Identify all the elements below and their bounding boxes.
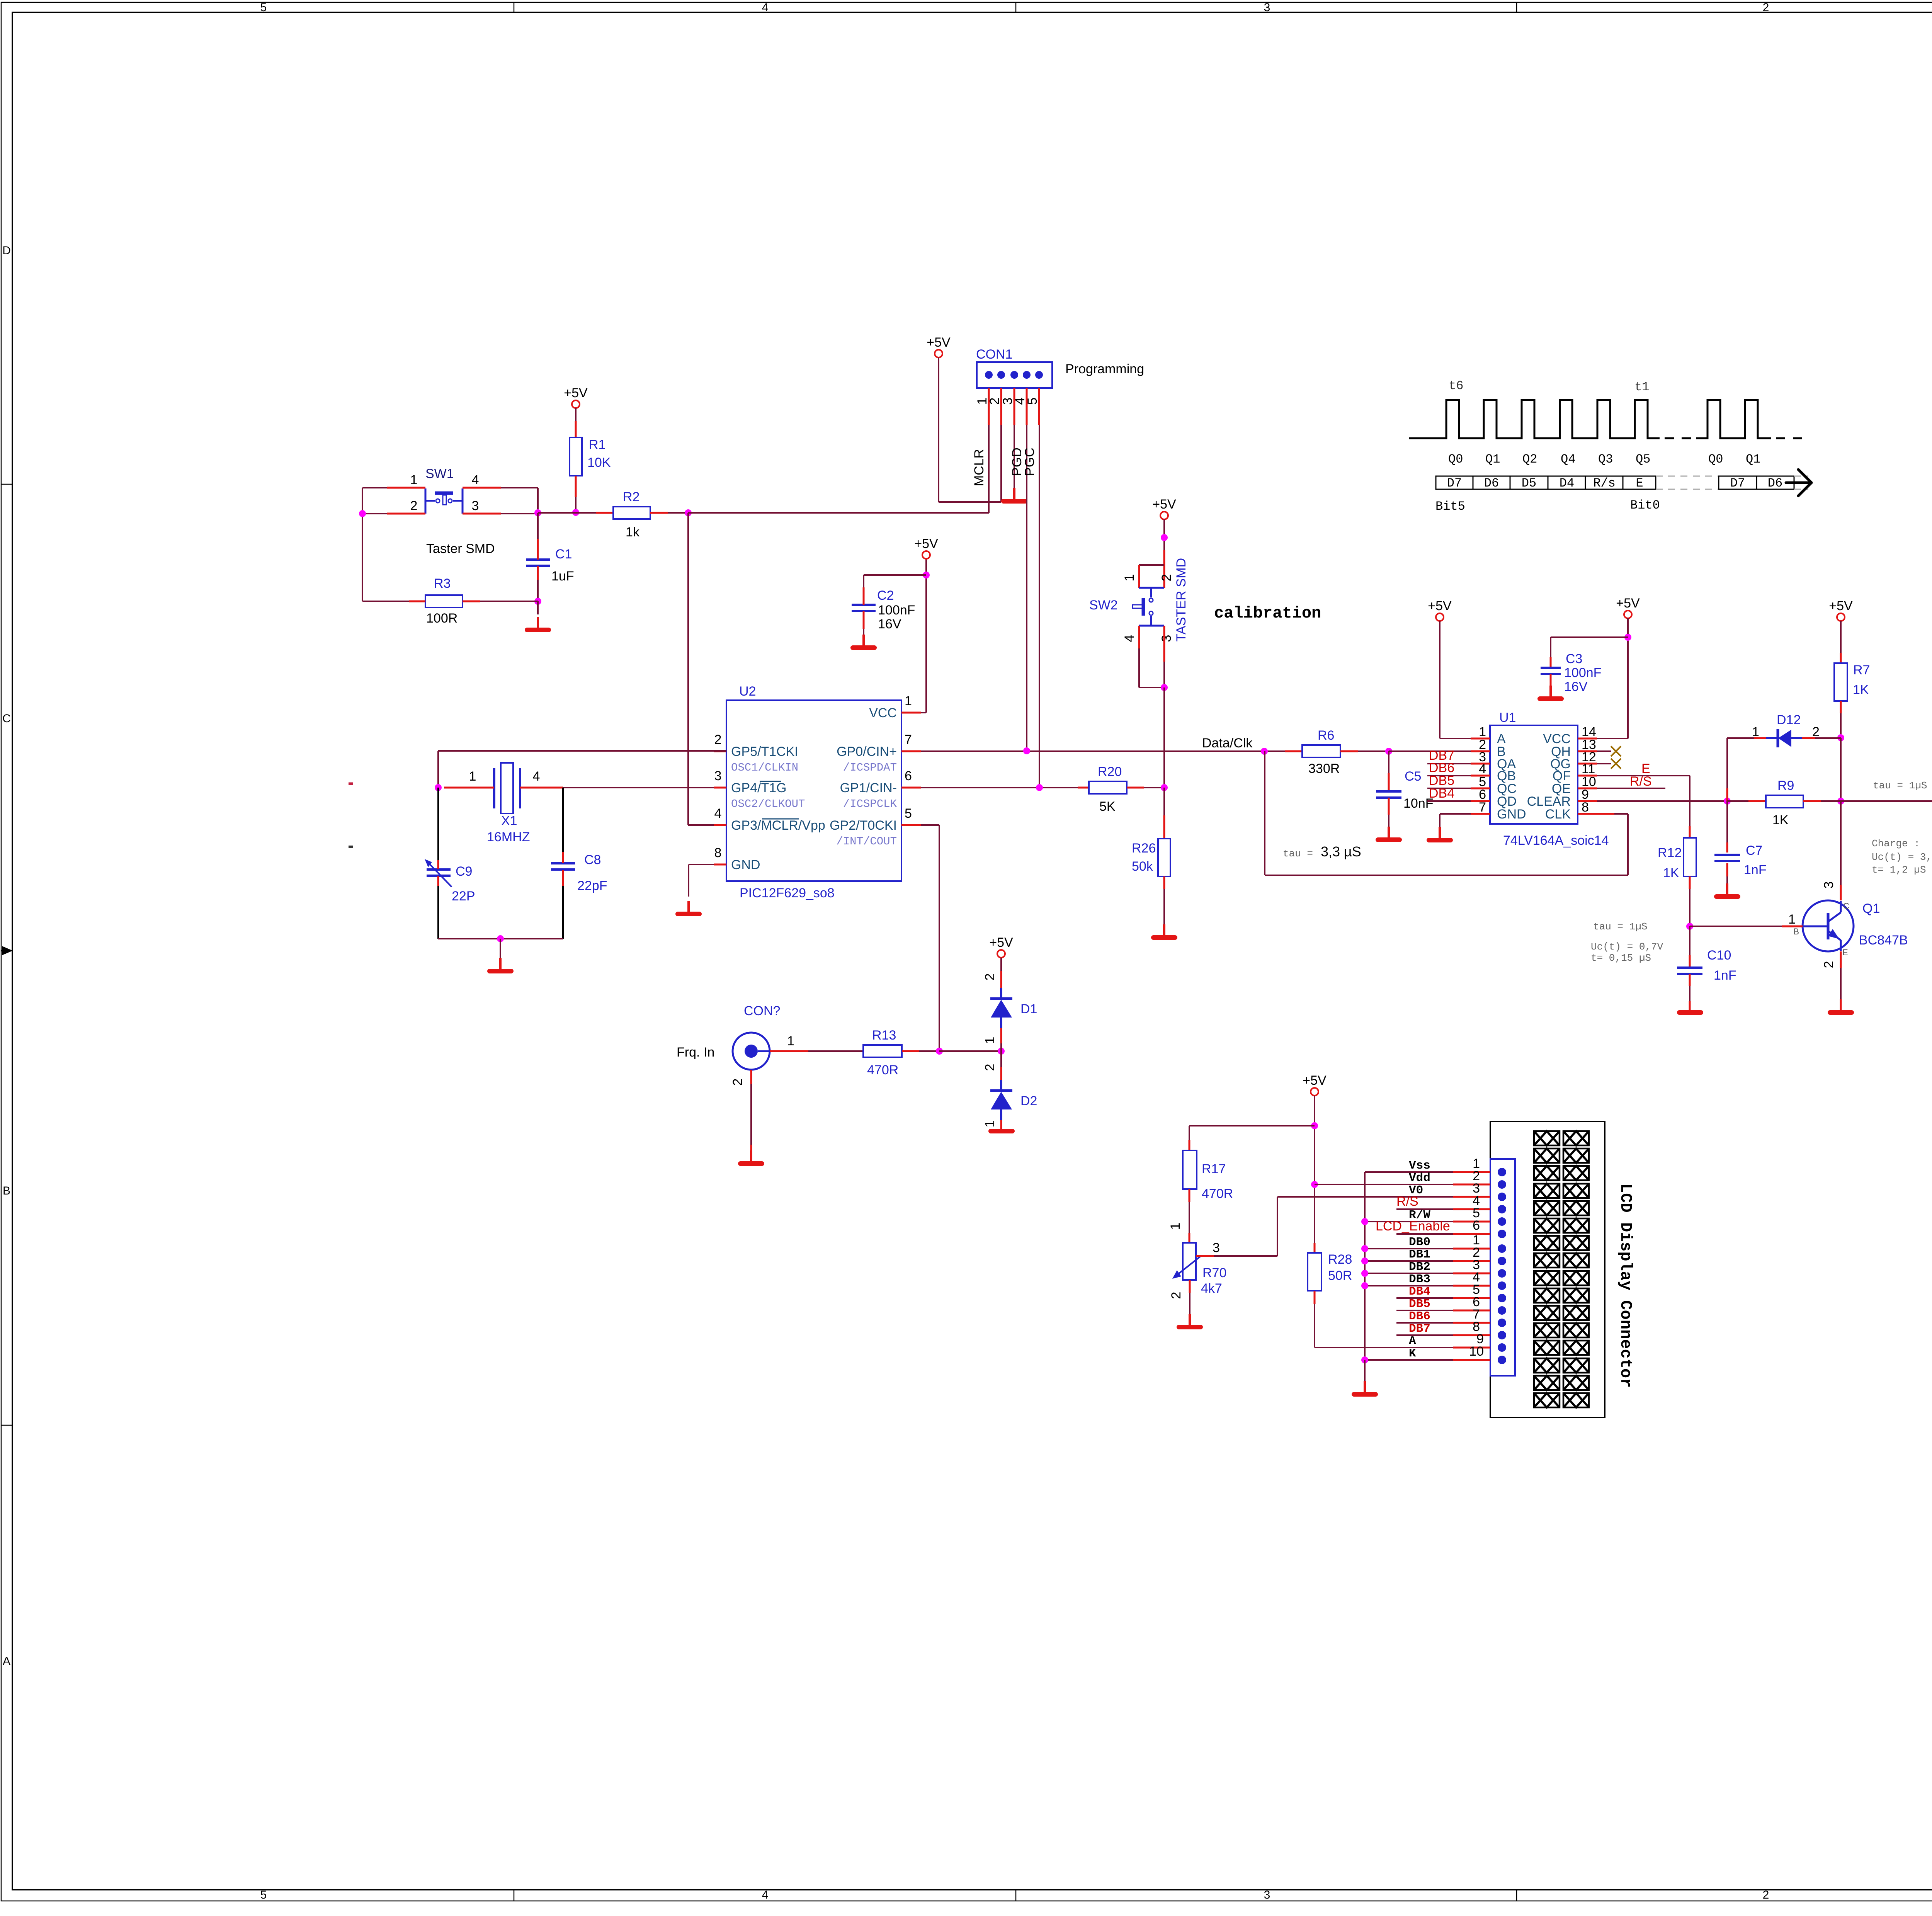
svg-text:5: 5 bbox=[1025, 398, 1040, 405]
svg-text:t= 0,15 µS: t= 0,15 µS bbox=[1591, 952, 1651, 964]
capacitor C3 bbox=[1551, 636, 1628, 638]
wire C9 bottom bbox=[437, 876, 439, 886]
svg-text:R2: R2 bbox=[623, 490, 639, 504]
svg-text:DB5: DB5 bbox=[1409, 1297, 1430, 1311]
wire SW2 pin1 bbox=[1139, 564, 1164, 566]
power +5V (U2) bbox=[914, 536, 938, 559]
svg-text:DB7: DB7 bbox=[1409, 1322, 1430, 1336]
svg-text:2: 2 bbox=[1159, 574, 1174, 582]
svg-text:GND: GND bbox=[1497, 807, 1526, 822]
svg-text:A: A bbox=[3, 1655, 10, 1668]
wire DB4 bbox=[1427, 800, 1471, 802]
resistor R12 bbox=[1684, 838, 1696, 876]
junction C3 tap bbox=[1624, 634, 1631, 641]
wire R13 to nodes bbox=[919, 1050, 939, 1052]
junction Vdd tap bbox=[1311, 1181, 1318, 1188]
svg-text:R20: R20 bbox=[1098, 764, 1122, 779]
power +5V (U1 A) bbox=[1428, 599, 1452, 621]
svg-text:10K: 10K bbox=[587, 455, 611, 470]
wire DB5 pin6 bbox=[1396, 1310, 1453, 1311]
svg-text:OSC1/CLKIN: OSC1/CLKIN bbox=[731, 761, 798, 774]
junction D12/R7 bbox=[1837, 734, 1844, 741]
wire main node to R2 bbox=[538, 512, 596, 514]
wire R/W bbox=[1365, 1221, 1453, 1222]
wire osc top bbox=[438, 750, 726, 752]
wire osc bottom bbox=[438, 938, 563, 939]
ground D2 bbox=[991, 1129, 1012, 1133]
wire R12 bottom bbox=[1689, 876, 1691, 889]
svg-text:Charge :: Charge : bbox=[1872, 838, 1920, 849]
wire D12 pin1 bbox=[1754, 737, 1766, 739]
wire MCLR node to CON1 bbox=[688, 512, 989, 514]
svg-text:C7: C7 bbox=[1746, 843, 1762, 858]
wire CON1 pin4 PGD bbox=[1026, 425, 1027, 750]
svg-text:1: 1 bbox=[787, 1034, 794, 1048]
stray mark red bbox=[349, 783, 353, 785]
svg-text:5: 5 bbox=[260, 1889, 267, 1901]
svg-text:DB3: DB3 bbox=[1409, 1273, 1430, 1286]
wire +5V LCD down bbox=[1314, 1096, 1315, 1243]
svg-text:3: 3 bbox=[714, 769, 722, 783]
svg-text:PIC12F629_so8: PIC12F629_so8 bbox=[740, 886, 835, 900]
svg-text:100nF: 100nF bbox=[878, 603, 915, 618]
resistor R6 bbox=[1285, 750, 1302, 752]
svg-text:+5V: +5V bbox=[1616, 596, 1640, 611]
zone ticks left bbox=[1, 484, 12, 485]
svg-text:3: 3 bbox=[1213, 1240, 1220, 1255]
wire CON1 pin3 to gnd bbox=[1014, 425, 1015, 488]
svg-text:Uc(t) = 3,5V: Uc(t) = 3,5V bbox=[1872, 851, 1932, 863]
svg-text:D5: D5 bbox=[1522, 476, 1536, 490]
svg-text:VCC: VCC bbox=[869, 706, 897, 720]
power +5V (R7) bbox=[1829, 599, 1853, 621]
power +5V (D1) bbox=[989, 935, 1013, 958]
junction C1/R3 bbox=[534, 598, 541, 605]
svg-text:4: 4 bbox=[762, 1889, 769, 1901]
svg-text:Frq. In: Frq. In bbox=[677, 1045, 714, 1060]
junction X1 pin1 bbox=[435, 784, 442, 791]
svg-text:+5V: +5V bbox=[1428, 599, 1452, 613]
svg-text:LCD Display Connector: LCD Display Connector bbox=[1616, 1183, 1635, 1388]
svg-text:2: 2 bbox=[987, 398, 1002, 405]
wire C5 node to U1 B bbox=[1389, 750, 1471, 752]
svg-text:3: 3 bbox=[472, 499, 479, 513]
junction SW2 top bbox=[1161, 534, 1168, 541]
svg-text:470R: 470R bbox=[1202, 1186, 1233, 1201]
svg-text:1: 1 bbox=[983, 1120, 997, 1128]
power +5V (U1 VCC) bbox=[1616, 596, 1640, 618]
svg-text:1: 1 bbox=[1788, 912, 1796, 927]
junction DB2 rail bbox=[1361, 1270, 1368, 1277]
svg-text:1nF: 1nF bbox=[1744, 863, 1767, 877]
svg-text:3,3 µS: 3,3 µS bbox=[1321, 844, 1361, 859]
svg-text:D7: D7 bbox=[1447, 476, 1462, 490]
wire Q1 collector bbox=[1840, 801, 1842, 885]
svg-text:GP5/T1CKI: GP5/T1CKI bbox=[731, 744, 798, 759]
svg-text:LCD_Enable: LCD_Enable bbox=[1376, 1219, 1450, 1234]
svg-text:2: 2 bbox=[983, 973, 997, 981]
junction SW2 bottom bbox=[1161, 684, 1168, 691]
svg-text:C: C bbox=[2, 712, 11, 725]
zone ticks bottom bbox=[514, 1890, 515, 1901]
wire R7 node down bbox=[1840, 738, 1842, 801]
wire U1 GND bbox=[1440, 813, 1471, 815]
svg-text:CON?: CON? bbox=[744, 1004, 780, 1018]
wire Q1 base bbox=[1690, 926, 1782, 927]
resistor R20 bbox=[1078, 787, 1089, 789]
wire DB5 bbox=[1427, 788, 1471, 789]
svg-text:CON1: CON1 bbox=[976, 347, 1012, 362]
svg-text:R7: R7 bbox=[1853, 663, 1870, 677]
junction LCD_Enable bbox=[1837, 798, 1844, 805]
capacitor C8 bbox=[551, 863, 575, 870]
resistor R1 bbox=[570, 437, 582, 476]
junction PGC/GP1 bbox=[1036, 784, 1043, 791]
wire LCD_Enable pin6 bbox=[1396, 1233, 1453, 1235]
potentiometer R70 bbox=[1183, 1243, 1196, 1280]
svg-text:2: 2 bbox=[1169, 1292, 1184, 1299]
svg-text:50k: 50k bbox=[1132, 859, 1153, 874]
wire R7 bottom bbox=[1840, 701, 1842, 713]
svg-text:2: 2 bbox=[730, 1079, 745, 1086]
wire SW2 pin4 bbox=[1138, 626, 1140, 648]
no-connect X pin12 bbox=[1597, 763, 1611, 764]
svg-text:OSC2/CLKOUT: OSC2/CLKOUT bbox=[731, 798, 805, 810]
svg-text:1uF: 1uF bbox=[551, 569, 574, 584]
capacitor C10 bbox=[1689, 926, 1690, 955]
wire +5V to R1 bbox=[575, 408, 577, 421]
svg-text:R17: R17 bbox=[1202, 1162, 1226, 1176]
wire R1 to node bbox=[575, 476, 577, 497]
power +5V (SW2) bbox=[1152, 497, 1176, 519]
wire +5V to R7 bbox=[1840, 621, 1842, 653]
svg-text:50R: 50R bbox=[1328, 1268, 1352, 1283]
lcd char cells bbox=[1534, 1131, 1589, 1407]
wire DB1 bbox=[1365, 1260, 1453, 1262]
wire SW1 pin3 bbox=[463, 513, 501, 515]
svg-text:Bit0: Bit0 bbox=[1630, 498, 1660, 512]
svg-text:1: 1 bbox=[1168, 1223, 1183, 1230]
svg-text:GP0/CIN+: GP0/CIN+ bbox=[837, 744, 897, 759]
svg-text:GP1/CIN-: GP1/CIN- bbox=[840, 781, 897, 795]
svg-text:C10: C10 bbox=[1707, 948, 1731, 963]
svg-text:R9: R9 bbox=[1777, 778, 1794, 793]
junction MCLR node bbox=[685, 509, 692, 516]
junction DB3 rail bbox=[1361, 1282, 1368, 1289]
svg-text:+5V: +5V bbox=[1303, 1073, 1327, 1088]
svg-text:GP4/T1G: GP4/T1G bbox=[731, 781, 787, 795]
stray mark dark bbox=[349, 846, 353, 848]
junction R6 left bbox=[1261, 748, 1268, 755]
svg-text:4: 4 bbox=[762, 1, 769, 14]
svg-text:R28: R28 bbox=[1328, 1252, 1352, 1267]
shift arrow bbox=[1786, 470, 1811, 496]
svg-text:1k: 1k bbox=[626, 525, 640, 539]
waveform pulse train bbox=[1409, 400, 1660, 438]
wire X1 pin4 bbox=[520, 787, 563, 789]
U2 pin 8 GND bbox=[714, 864, 726, 866]
svg-text:10: 10 bbox=[1469, 1344, 1484, 1359]
wire +5V to CON1 pin2 bbox=[938, 357, 939, 502]
wire Data/Clk net bbox=[921, 750, 1285, 752]
svg-text:6: 6 bbox=[905, 769, 912, 783]
junction GP2 node bbox=[936, 1048, 943, 1055]
transistor Q1 bbox=[1803, 900, 1854, 951]
wire C2 bottom bbox=[863, 611, 865, 629]
power +5V (LCD) bbox=[1303, 1073, 1327, 1096]
ground C1 bbox=[537, 601, 539, 614]
U2 pin 3 GP4/T1G bbox=[714, 787, 726, 789]
svg-text:BC847B: BC847B bbox=[1859, 933, 1908, 948]
ground C3 bbox=[1540, 686, 1561, 699]
svg-text:2: 2 bbox=[714, 732, 722, 747]
svg-text:1K: 1K bbox=[1853, 682, 1869, 697]
ic U2 box bbox=[726, 700, 901, 881]
resistor R2 bbox=[613, 507, 650, 519]
svg-text:D6: D6 bbox=[1768, 476, 1782, 490]
svg-text:2: 2 bbox=[1812, 725, 1820, 739]
ground R26 bbox=[1153, 924, 1175, 938]
svg-text:GP3/MCLR/Vpp: GP3/MCLR/Vpp bbox=[731, 818, 825, 833]
lcd outer box bbox=[1490, 1121, 1605, 1417]
connector CON? Frq In bbox=[733, 1033, 770, 1070]
ground C10 bbox=[1679, 1010, 1701, 1015]
svg-text:MCLR: MCLR bbox=[972, 449, 986, 486]
no-connect X pin13 bbox=[1597, 750, 1611, 752]
wire SW1 pin4 bbox=[463, 487, 501, 489]
svg-text:1: 1 bbox=[1122, 574, 1137, 582]
svg-text:Q0: Q0 bbox=[1448, 452, 1463, 466]
svg-text:2: 2 bbox=[410, 499, 418, 513]
svg-text:U1: U1 bbox=[1499, 710, 1516, 725]
wire C2 top bbox=[864, 574, 926, 576]
wire X1 pin1 bbox=[444, 787, 494, 789]
svg-text:470R: 470R bbox=[867, 1063, 898, 1077]
wire to R17 bbox=[1189, 1125, 1315, 1126]
junction C5 bbox=[1385, 748, 1392, 755]
wire DB7 bbox=[1427, 763, 1471, 764]
svg-text:E: E bbox=[1636, 476, 1643, 490]
wire R28 bottom to A bbox=[1314, 1291, 1316, 1304]
power +5V (CON1) bbox=[927, 335, 951, 357]
svg-text:1: 1 bbox=[1752, 725, 1759, 739]
svg-text:1: 1 bbox=[905, 694, 912, 708]
wire R20 to node bbox=[1144, 787, 1164, 788]
svg-text:1: 1 bbox=[410, 473, 418, 487]
wire DB6 bbox=[1427, 775, 1471, 776]
svg-text:5K: 5K bbox=[1099, 799, 1116, 814]
svg-text:B: B bbox=[3, 1184, 10, 1197]
svg-text:R/S: R/S bbox=[1396, 1194, 1418, 1209]
junction R20/R26 bbox=[1161, 784, 1168, 791]
wire R70 wiper bbox=[1196, 1255, 1214, 1257]
svg-text:tau = 1µS: tau = 1µS bbox=[1593, 921, 1647, 932]
svg-text:U2: U2 bbox=[739, 684, 756, 699]
lcd pin dots bbox=[1498, 1168, 1506, 1176]
wire CLK net bbox=[1614, 813, 1628, 815]
capacitor C2 bbox=[852, 605, 876, 611]
resistor R17 bbox=[1183, 1150, 1197, 1189]
U2 pin 2 GP5/T1CKI bbox=[714, 750, 726, 752]
svg-text:D4: D4 bbox=[1560, 476, 1574, 490]
wire LCD_Enable bbox=[1841, 800, 1932, 802]
wire R3 left bbox=[409, 601, 425, 602]
svg-text:1: 1 bbox=[983, 1037, 997, 1044]
U1 left pins bbox=[1471, 738, 1490, 740]
wire A pin9 bbox=[1315, 1347, 1453, 1348]
wire C9 top bbox=[437, 788, 439, 860]
power +5V (R1) bbox=[564, 386, 588, 408]
junction C2 tap bbox=[923, 572, 930, 579]
wire QE R/S stub bbox=[1597, 788, 1665, 789]
U2 pin 1 VCC bbox=[901, 712, 921, 714]
junction CLEAR/C7/D12 bbox=[1724, 798, 1731, 805]
wire Vss bbox=[1365, 1171, 1453, 1173]
svg-text:TASTER SMD: TASTER SMD bbox=[1174, 558, 1189, 642]
svg-text:74LV164A_soic14: 74LV164A_soic14 bbox=[1503, 833, 1609, 848]
wire +5V to U1 pin14 bbox=[1627, 618, 1629, 738]
wire DB4 pin5 bbox=[1396, 1297, 1453, 1299]
svg-text:Bit5: Bit5 bbox=[1435, 499, 1465, 514]
svg-text:C1: C1 bbox=[555, 547, 572, 562]
diode D12 bbox=[1766, 729, 1802, 747]
svg-text:22pF: 22pF bbox=[577, 878, 607, 893]
wire +5V SW2 bbox=[1163, 519, 1165, 550]
svg-text:Q1: Q1 bbox=[1746, 452, 1760, 466]
wire R17 to R70 bbox=[1189, 1189, 1190, 1202]
resistor R7 bbox=[1834, 663, 1847, 701]
svg-text:D2: D2 bbox=[1020, 1094, 1037, 1108]
junction PGD/DataClk bbox=[1023, 747, 1030, 754]
wire R/S bbox=[1396, 1208, 1453, 1210]
resistor R28 bbox=[1308, 1253, 1321, 1291]
ground C2 bbox=[853, 635, 874, 648]
svg-text:+5V: +5V bbox=[914, 536, 938, 551]
wire R70 bottom bbox=[1189, 1280, 1191, 1293]
capacitor C9 variable bbox=[427, 870, 451, 876]
connector CON1 bbox=[977, 362, 1052, 388]
svg-text:+5V: +5V bbox=[1152, 497, 1176, 512]
svg-text:1K: 1K bbox=[1772, 813, 1789, 827]
junction SW1 pin2 bbox=[359, 510, 366, 517]
wire R26 bottom bbox=[1163, 876, 1165, 889]
svg-text:DB6: DB6 bbox=[1409, 1310, 1430, 1323]
svg-text:R/S: R/S bbox=[1630, 774, 1652, 789]
svg-text:R/s: R/s bbox=[1593, 476, 1616, 490]
wire DB6 pin7 bbox=[1396, 1322, 1453, 1324]
wire CON pin1 bbox=[758, 1050, 770, 1052]
svg-text:R1: R1 bbox=[589, 437, 605, 452]
svg-text:Q0: Q0 bbox=[1708, 452, 1723, 466]
svg-text:C9: C9 bbox=[456, 864, 472, 879]
junction LCD top bbox=[1311, 1122, 1318, 1129]
diode D1 bbox=[1000, 958, 1002, 971]
wire QF to R12 bbox=[1597, 775, 1690, 776]
capacitor C1 bbox=[526, 560, 550, 566]
svg-text:2: 2 bbox=[983, 1064, 997, 1071]
svg-text:100R: 100R bbox=[426, 611, 457, 626]
wire GP1 net bbox=[921, 787, 1078, 788]
wire SW1 pin1 bbox=[387, 487, 425, 489]
svg-text:7: 7 bbox=[1479, 800, 1486, 815]
switch SW2 bbox=[1133, 588, 1164, 626]
wire osc right vertical bbox=[562, 788, 564, 852]
svg-text:5: 5 bbox=[905, 806, 912, 821]
svg-text:16V: 16V bbox=[1564, 679, 1588, 694]
wire GND U2 bbox=[689, 864, 714, 865]
ground Q1 bbox=[1830, 1010, 1852, 1015]
svg-text:Data/Clk: Data/Clk bbox=[1202, 736, 1253, 750]
wire C8 bottom bbox=[562, 870, 564, 886]
wire K pin10 bbox=[1365, 1359, 1453, 1361]
svg-text:1nF: 1nF bbox=[1714, 968, 1736, 983]
svg-text:Q5: Q5 bbox=[1636, 452, 1650, 466]
svg-text:Uc(t) = 0,7V: Uc(t) = 0,7V bbox=[1591, 941, 1663, 953]
junction DB1 rail bbox=[1361, 1257, 1368, 1264]
svg-text:3: 3 bbox=[1264, 1, 1270, 14]
svg-text:Q1: Q1 bbox=[1485, 452, 1500, 466]
svg-text:t= 1,2 µS: t= 1,2 µS bbox=[1872, 864, 1926, 876]
ic U1 box bbox=[1490, 725, 1578, 824]
svg-text:330R: 330R bbox=[1308, 761, 1340, 776]
wire CON pin2 bbox=[750, 1070, 752, 1084]
wire VCC to +5V bbox=[921, 712, 926, 713]
svg-text:calibration: calibration bbox=[1214, 604, 1321, 623]
wire SW2 pin2 bbox=[1163, 550, 1165, 588]
wire DB0 bbox=[1365, 1248, 1453, 1249]
wire Q1 emitter bbox=[1840, 951, 1842, 968]
svg-text:+5V: +5V bbox=[564, 386, 588, 400]
svg-text:tau =: tau = bbox=[1283, 848, 1313, 859]
svg-text:/INT/COUT: /INT/COUT bbox=[836, 835, 897, 848]
svg-text:16MHZ: 16MHZ bbox=[487, 830, 530, 844]
svg-text:16V: 16V bbox=[878, 617, 901, 631]
svg-text:2: 2 bbox=[1763, 1889, 1769, 1901]
junction R1/main bbox=[572, 509, 579, 516]
svg-text:K: K bbox=[1409, 1347, 1416, 1360]
svg-text:4: 4 bbox=[533, 769, 540, 784]
zone ticks top bbox=[514, 2, 515, 12]
crystal X1 bbox=[494, 763, 520, 813]
svg-text:E: E bbox=[1842, 948, 1848, 957]
svg-text:4: 4 bbox=[714, 806, 722, 821]
wire R6 to C5 node bbox=[1358, 750, 1389, 752]
svg-text:22P: 22P bbox=[452, 889, 475, 904]
svg-text:2: 2 bbox=[1821, 961, 1836, 968]
svg-text:DB1: DB1 bbox=[1409, 1248, 1430, 1261]
svg-text:1K: 1K bbox=[1663, 866, 1679, 880]
svg-text:X1: X1 bbox=[501, 813, 517, 828]
U1 right pins bbox=[1578, 738, 1597, 740]
wire SW2 to R20 node bbox=[1163, 687, 1165, 788]
switch SW1 bbox=[425, 488, 463, 514]
U2 pin 4 GP3/MCLR/Vpp bbox=[714, 824, 726, 826]
junction SW1 pin3/main wire bbox=[534, 509, 541, 516]
wire CON1 pin5 PGC bbox=[1039, 425, 1040, 788]
svg-text:Programming: Programming bbox=[1065, 362, 1144, 376]
ground C7 bbox=[1716, 883, 1738, 897]
junction R/W rail bbox=[1361, 1218, 1368, 1225]
svg-text:CLK: CLK bbox=[1545, 807, 1571, 822]
wire node to C1 bbox=[537, 513, 539, 539]
resistor R9 bbox=[1727, 800, 1748, 802]
svg-text:3: 3 bbox=[1264, 1889, 1270, 1901]
ground R70 bbox=[1179, 1314, 1201, 1327]
svg-text:Q3: Q3 bbox=[1598, 452, 1613, 466]
svg-text:B: B bbox=[1793, 927, 1799, 936]
U2 pin 7 GP0/CIN+ bbox=[901, 750, 921, 752]
resistor R26 bbox=[1163, 788, 1165, 815]
